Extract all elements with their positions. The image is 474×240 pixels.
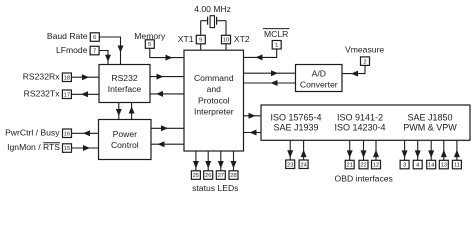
pin 22 xyxy=(359,160,368,169)
wire CAN Tx pin 23 xyxy=(287,140,293,160)
svg-text:Baud Rate: Baud Rate xyxy=(47,31,88,41)
pin 12 xyxy=(372,160,381,169)
svg-text:25: 25 xyxy=(193,173,199,179)
wire A/D to interpreter xyxy=(244,80,296,86)
svg-text:XT2: XT2 xyxy=(234,34,250,44)
block OBD protocols xyxy=(261,105,470,140)
svg-text:OBD interfaces: OBD interfaces xyxy=(335,173,393,183)
wire ISO in pin 12 xyxy=(373,140,379,160)
pin 16 PwrCtrl / Busy xyxy=(5,128,71,138)
svg-text:Interface: Interface xyxy=(108,84,142,94)
pin 10 XT2 xyxy=(222,34,250,44)
wire pin 15 to Power Control xyxy=(72,145,99,151)
block Command and Protocol Interpreter xyxy=(184,50,244,151)
svg-text:RS232Tx: RS232Tx xyxy=(24,89,61,99)
wire Power Control to RS232 xyxy=(129,103,135,120)
pin 27 xyxy=(216,171,225,180)
label OBD interfaces xyxy=(335,173,393,183)
wire CAN Rx pin 24 xyxy=(301,140,307,160)
svg-text:Converter: Converter xyxy=(300,80,338,90)
label status LEDs xyxy=(192,183,238,193)
pin 11 xyxy=(452,160,461,169)
svg-text:PWM & VPW: PWM & VPW xyxy=(403,123,457,133)
wire interpreter to A/D xyxy=(244,70,296,76)
svg-text:15: 15 xyxy=(64,146,70,152)
svg-text:4.00 MHz: 4.00 MHz xyxy=(194,4,231,14)
svg-text:MCLR: MCLR xyxy=(264,29,288,39)
svg-text:26: 26 xyxy=(205,173,211,179)
svg-text:Command: Command xyxy=(194,73,234,83)
svg-text:2: 2 xyxy=(363,59,366,65)
pin 6 Baud Rate xyxy=(47,31,99,42)
wire ISO K out pin 21 xyxy=(347,140,353,160)
wire interpreter to OBD block xyxy=(244,113,262,119)
svg-text:ISO 9141-2: ISO 9141-2 xyxy=(337,112,383,122)
wire RS232 to interpreter xyxy=(150,74,184,80)
wire ISO L out pin 22 xyxy=(361,140,367,160)
svg-text:SAE J1939: SAE J1939 xyxy=(273,123,318,133)
svg-text:Protocol: Protocol xyxy=(198,95,230,105)
wire MCLR to interpreter xyxy=(244,49,277,60)
wire status LED 1 xyxy=(193,151,199,171)
svg-text:23: 23 xyxy=(287,162,293,168)
svg-text:Vmeasure: Vmeasure xyxy=(345,44,384,54)
wire J1850 Bus+ pin 4 xyxy=(415,140,421,160)
svg-text:5: 5 xyxy=(148,42,151,48)
pin 24 xyxy=(299,160,308,169)
wire J1850 in pin 13 xyxy=(441,140,447,160)
wire J1850 Bus- pin 14 xyxy=(428,140,434,160)
wire XT1 xyxy=(200,21,202,51)
svg-text:XT1: XT1 xyxy=(178,34,194,44)
svg-text:RS232Rx: RS232Rx xyxy=(23,72,60,82)
svg-text:status LEDs: status LEDs xyxy=(192,183,238,193)
crystal X1 4.00 MHz xyxy=(194,4,231,27)
svg-text:LFmode: LFmode xyxy=(56,45,88,55)
pin 17 RS232Tx xyxy=(24,89,72,99)
pin 7 LFmode xyxy=(56,45,99,55)
wire RS232Rx to RS232 xyxy=(71,74,99,80)
svg-text:and: and xyxy=(207,84,222,94)
wire RS232 to RS232Tx xyxy=(71,91,99,97)
svg-text:13: 13 xyxy=(441,163,447,169)
svg-text:14: 14 xyxy=(428,163,435,169)
wire OBD block to interpreter xyxy=(244,130,262,136)
svg-text:6: 6 xyxy=(93,35,96,41)
wire XT2 xyxy=(225,21,227,51)
pin 15 IgnMon / RTS xyxy=(7,142,71,153)
svg-text:17: 17 xyxy=(64,92,70,98)
pin 21 xyxy=(345,160,354,169)
pin 18 RS232Rx xyxy=(23,72,72,82)
wire status LED 3 xyxy=(218,151,224,171)
wire Vmeasure to A/D xyxy=(342,65,365,76)
svg-text:9: 9 xyxy=(199,38,202,44)
pin 1 MCLR xyxy=(263,29,290,49)
pin 25 xyxy=(191,171,200,180)
svg-text:12: 12 xyxy=(373,163,379,169)
svg-text:27: 27 xyxy=(218,173,224,179)
wire interpreter to RS232 xyxy=(150,91,184,97)
svg-text:ISO 14230-4: ISO 14230-4 xyxy=(334,123,385,133)
pin 4 xyxy=(413,160,422,169)
wire Memory to interpreter xyxy=(150,48,184,60)
wire VPW in pin 11 xyxy=(454,140,460,160)
svg-text:Interpreter: Interpreter xyxy=(194,106,234,116)
block A/D Converter xyxy=(296,65,343,92)
svg-text:PwrCtrl / Busy: PwrCtrl / Busy xyxy=(5,128,60,138)
pin 26 xyxy=(204,171,213,180)
svg-text:28: 28 xyxy=(230,173,236,179)
svg-text:24: 24 xyxy=(300,162,307,168)
svg-text:16: 16 xyxy=(64,131,70,137)
svg-text:Power: Power xyxy=(113,129,137,139)
wire J1850 volts pin 3 xyxy=(402,140,408,160)
block RS232 Interface xyxy=(99,65,150,103)
wire status LED 4 xyxy=(231,151,237,171)
wire RS232 to Power Control xyxy=(116,103,122,120)
svg-text:18: 18 xyxy=(64,75,70,81)
wire status LED 2 xyxy=(205,151,211,171)
pin 2 Vmeasure xyxy=(345,44,384,65)
wire interpreter to Power Control xyxy=(151,141,184,147)
svg-text:Control: Control xyxy=(111,140,139,150)
svg-text:11: 11 xyxy=(454,163,460,169)
pin 3 xyxy=(400,160,409,169)
pin 14 xyxy=(427,160,436,169)
wire LFmode to RS232 xyxy=(99,51,111,65)
svg-text:7: 7 xyxy=(93,49,96,55)
svg-text:RS232: RS232 xyxy=(111,73,137,83)
svg-text:SAE J1850: SAE J1850 xyxy=(407,112,452,122)
pin 28 xyxy=(229,171,238,180)
pin 5 Memory xyxy=(134,31,166,49)
svg-text:ISO 15765-4: ISO 15765-4 xyxy=(270,112,321,122)
pin 9 XT1 xyxy=(178,34,206,44)
pin 13 xyxy=(439,160,448,169)
svg-text:10: 10 xyxy=(223,38,229,44)
svg-text:A/D: A/D xyxy=(312,69,326,79)
wire Baud Rate to RS232 xyxy=(99,37,123,65)
svg-text:22: 22 xyxy=(360,163,366,169)
block Power Control xyxy=(99,120,152,160)
svg-text:21: 21 xyxy=(346,163,352,169)
svg-text:3: 3 xyxy=(403,163,406,169)
wire Power Control to pin 16 xyxy=(72,130,99,136)
wire Power Control to interpreter xyxy=(151,125,184,131)
pin 23 xyxy=(286,160,295,169)
svg-text:1: 1 xyxy=(275,43,278,49)
